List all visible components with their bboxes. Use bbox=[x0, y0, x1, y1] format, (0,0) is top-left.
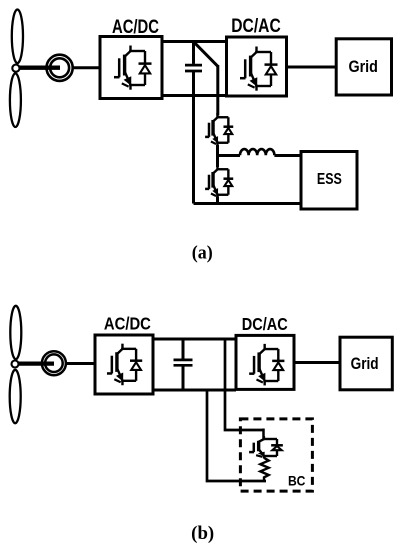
braking resistor R (b) bbox=[260, 458, 268, 481]
svg-text:ESS: ESS bbox=[317, 171, 342, 188]
DC link bottom rail (a) bbox=[162, 94, 228, 97]
generator G (a) bbox=[47, 55, 73, 81]
ESS box (a) bbox=[301, 152, 357, 210]
dashed BC boundary box (b) bbox=[240, 419, 312, 491]
chopper IGBT lower (a) bbox=[205, 165, 233, 198]
IGBT inside DC/AC (b) bbox=[249, 344, 284, 386]
svg-text:BC: BC bbox=[288, 474, 306, 489]
wind turbine blade lower (a) bbox=[10, 73, 21, 127]
shaft (a) bbox=[20, 65, 61, 69]
wind turbine blade lower (b) bbox=[10, 370, 21, 423]
svg-text:Grid: Grid bbox=[351, 355, 379, 373]
svg-text:DC/AC: DC/AC bbox=[231, 16, 281, 37]
wire DC/AC to Grid (b) bbox=[295, 361, 342, 364]
IGBT inside AC/DC (a) bbox=[114, 46, 152, 90]
right tap: top rail down to BC input (b) bbox=[225, 338, 264, 431]
capacitor plates (a) bbox=[185, 65, 202, 71]
DC/AC converter box (a) bbox=[227, 37, 287, 96]
Grid box (a) bbox=[336, 39, 391, 95]
svg-text:AC/DC: AC/DC bbox=[104, 314, 151, 334]
wire generator to AC/DC (a) bbox=[73, 66, 100, 69]
svg-text:(a): (a) bbox=[192, 244, 213, 264]
DC link top rail (a) bbox=[162, 40, 228, 43]
DC link bottom rail (b) bbox=[153, 389, 236, 392]
DC/AC converter box (b) bbox=[236, 335, 294, 389]
DC link top rail (b) bbox=[153, 338, 236, 341]
IGBT inside DC/AC (a) bbox=[240, 47, 278, 91]
capacitor top lead (b) bbox=[182, 339, 185, 359]
AC/DC converter box (b) bbox=[95, 335, 153, 394]
wire DC/AC to Grid (a) bbox=[287, 66, 338, 69]
Grid box (b) bbox=[340, 337, 392, 390]
AC/DC converter box (a) bbox=[100, 37, 162, 99]
BC chopper input stub (b) bbox=[262, 429, 265, 440]
capacitor bottom lead / tap to chopper negative (a) bbox=[192, 71, 195, 204]
wire diagonal to chopper (a) bbox=[216, 65, 219, 116]
wire generator to AC/DC (b) bbox=[66, 362, 96, 365]
wind turbine blade upper (a) bbox=[12, 10, 23, 64]
chopper IGBT upper (a) bbox=[205, 113, 233, 146]
svg-text:(b): (b) bbox=[191, 524, 214, 544]
left tap: bottom rail down to BC return (b) bbox=[207, 389, 266, 482]
wind turbine blade upper (b) bbox=[10, 306, 21, 359]
chopper bottom wire to ESS (a) bbox=[194, 202, 302, 205]
wire inductor to ESS (a) bbox=[274, 154, 301, 157]
svg-text:AC/DC: AC/DC bbox=[112, 17, 159, 38]
generator G (b) bbox=[42, 351, 66, 375]
shaft (b) bbox=[19, 362, 55, 366]
wire chopper midpoint vertical (a) bbox=[216, 145, 219, 167]
capacitor bottom lead (b) bbox=[182, 365, 185, 390]
wire chopper bottom stub (a) bbox=[216, 197, 219, 204]
IGBT inside AC/DC (b) bbox=[107, 344, 142, 386]
capacitor plates (b) bbox=[174, 360, 193, 365]
DC-link capacitor (a) top lead bbox=[192, 42, 195, 64]
turbine hub (a) bbox=[12, 65, 19, 72]
braking chopper IGBT (b) bbox=[249, 436, 283, 458]
svg-text:DC/AC: DC/AC bbox=[242, 314, 288, 334]
turbine hub (b) bbox=[12, 361, 19, 368]
wire midpoint to inductor (a) bbox=[218, 154, 241, 157]
diagonal tap from top rail (a) bbox=[194, 42, 218, 66]
inductor L (a) bbox=[240, 149, 274, 155]
svg-text:Grid: Grid bbox=[348, 57, 378, 76]
